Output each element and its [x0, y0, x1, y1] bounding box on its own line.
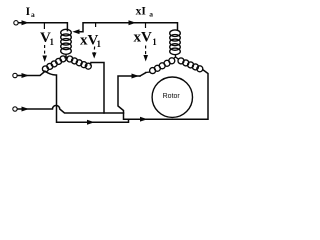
- svg-text:1: 1: [50, 37, 55, 47]
- svg-text:1: 1: [97, 39, 102, 49]
- svg-text:1: 1: [152, 37, 157, 47]
- svg-text:Rotor: Rotor: [163, 93, 181, 100]
- svg-text:a: a: [31, 10, 35, 19]
- svg-text:xI: xI: [136, 6, 147, 18]
- svg-text:I: I: [26, 6, 31, 18]
- svg-text:xV: xV: [134, 30, 153, 46]
- svg-text:a: a: [149, 10, 153, 19]
